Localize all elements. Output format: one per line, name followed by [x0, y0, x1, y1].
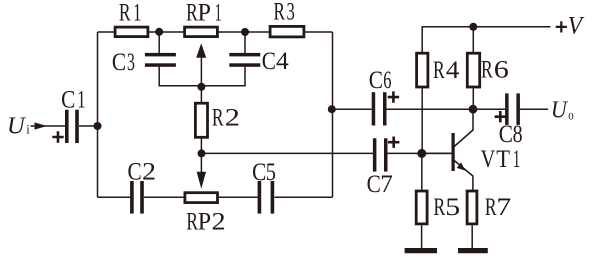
svg-text:i: i	[26, 123, 30, 137]
svg-text:3: 3	[127, 47, 135, 76]
svg-text:C: C	[112, 48, 126, 76]
svg-text:U: U	[551, 96, 569, 123]
svg-text:P: P	[198, 0, 211, 26]
svg-text:C: C	[367, 170, 381, 198]
svg-text:1: 1	[513, 144, 521, 173]
svg-text:R: R	[485, 193, 497, 221]
svg-text:2: 2	[211, 207, 225, 235]
svg-text:4: 4	[276, 46, 289, 75]
svg-text:P: P	[198, 208, 211, 236]
svg-text:U: U	[7, 113, 27, 140]
svg-text:o: o	[568, 107, 573, 123]
svg-text:R: R	[434, 193, 446, 221]
svg-text:2: 2	[142, 157, 156, 186]
svg-text:3: 3	[287, 0, 295, 25]
svg-text:C: C	[127, 158, 141, 186]
svg-text:6: 6	[383, 65, 391, 94]
svg-text:R: R	[433, 56, 445, 84]
svg-text:C: C	[252, 158, 266, 186]
svg-text:4: 4	[446, 56, 459, 84]
svg-text:1: 1	[77, 85, 85, 113]
svg-text:R: R	[212, 103, 224, 131]
svg-text:R: R	[119, 0, 131, 26]
svg-text:V: V	[481, 144, 496, 173]
svg-text:C: C	[262, 47, 276, 75]
svg-text:5: 5	[266, 157, 276, 186]
svg-text:6: 6	[494, 56, 509, 84]
svg-text:1: 1	[215, 0, 222, 26]
svg-text:R: R	[186, 207, 198, 235]
svg-text:2: 2	[225, 104, 240, 132]
svg-text:7: 7	[496, 192, 511, 221]
svg-text:R: R	[186, 0, 198, 26]
svg-text:C: C	[61, 86, 75, 114]
svg-text:R: R	[481, 55, 493, 83]
svg-text:7: 7	[380, 171, 392, 198]
svg-text:C: C	[369, 66, 383, 94]
svg-text:R: R	[274, 0, 286, 25]
svg-text:T: T	[496, 146, 510, 174]
svg-text:C: C	[499, 120, 513, 148]
svg-text:1: 1	[133, 0, 141, 26]
svg-text:5: 5	[445, 193, 460, 221]
